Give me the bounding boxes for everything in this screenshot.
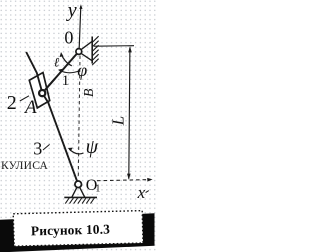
- svg-text:L: L: [108, 116, 127, 126]
- leader line for 3: [43, 144, 50, 150]
- y axis arrowhead: [79, 4, 82, 9]
- svg-text:2: 2: [7, 92, 17, 114]
- pivot O1 circle: [75, 181, 82, 188]
- svg-text:A: A: [23, 97, 37, 118]
- bracket strut lower: [81, 53, 92, 61]
- y axis: [79, 6, 81, 48]
- svg-text:1: 1: [62, 73, 70, 89]
- svg-text:ψ: ψ: [86, 136, 99, 158]
- ground line: [64, 196, 97, 198]
- svg-text:3: 3: [33, 139, 42, 159]
- slotted link 3 (kulisa rod): [26, 52, 78, 185]
- dimension arrow bottom: [127, 174, 131, 180]
- leader line for 2: [20, 96, 29, 101]
- svg-text:КУЛИСА: КУЛИСА: [1, 160, 48, 172]
- svg-text:y: y: [66, 0, 77, 22]
- svg-text:x: x: [137, 183, 146, 202]
- support triangle right: [79, 187, 84, 198]
- wall hatching: [92, 36, 98, 65]
- dashed line O-O1: [78, 56, 80, 178]
- svg-text:ℓ: ℓ: [54, 55, 60, 70]
- angle psi arc: [69, 149, 83, 154]
- svg-text:Рисунок 10.3: Рисунок 10.3: [31, 221, 111, 238]
- rotation arrow: [61, 54, 71, 66]
- caption black band: [0, 213, 155, 252]
- angle phi arc: [60, 70, 80, 72]
- bracket strut upper: [81, 41, 92, 50]
- support triangle left: [72, 187, 77, 198]
- pivot O circle: [76, 49, 82, 55]
- caption white box with dotted border: [13, 211, 143, 247]
- svg-text:1: 1: [95, 184, 100, 195]
- crank end over block: [42, 79, 55, 94]
- ground hatching: [65, 198, 94, 204]
- slider block 2: [29, 73, 49, 108]
- svg-text:φ: φ: [77, 60, 87, 80]
- dimension arrow top: [128, 46, 132, 52]
- x axis dashed: [97, 180, 150, 181]
- pin A: [39, 90, 45, 96]
- x axis arrowhead: [147, 178, 152, 182]
- dimension extension line top: [94, 45, 134, 48]
- crank link 1 (OA): [42, 52, 79, 94]
- svg-text:B: B: [82, 88, 97, 97]
- x axis small tick: [146, 191, 149, 193]
- dimension line L: [129, 48, 130, 179]
- wall support at O: [91, 37, 93, 64]
- svg-text:0: 0: [64, 27, 73, 47]
